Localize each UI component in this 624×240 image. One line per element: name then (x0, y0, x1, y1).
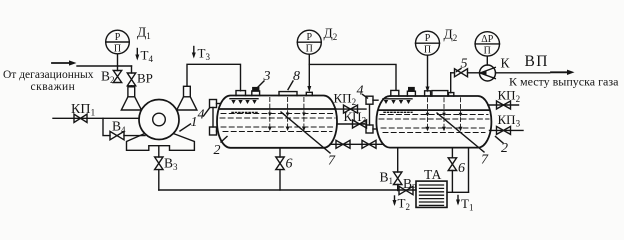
vessel2 spray header and nozzles (383, 99, 412, 113)
svg-text:2: 2 (214, 143, 221, 158)
valve КП1 (74, 114, 87, 122)
svg-text:скважин: скважин (31, 81, 76, 93)
vessel1 gauge neck (306, 92, 312, 95)
label 3 (257, 69, 271, 89)
pressure gauge Д2 (vessel1) (297, 30, 321, 55)
fan/compressor K (480, 65, 550, 81)
vessel1 internal deck (219, 108, 336, 110)
outlet flow arrow (551, 70, 575, 75)
svg-text:П: П (424, 45, 431, 56)
svg-text:П: П (306, 44, 313, 55)
vessel1 T3 inlet nozzle box (236, 91, 246, 96)
wire: gauge D1 stem (117, 54, 119, 66)
label 7 (vessel1) with leader (281, 112, 336, 169)
vessel1 drain valve 6 (276, 148, 293, 190)
pump base pedestal (127, 134, 195, 151)
label 7 (vessel2) with leader (437, 113, 489, 168)
sample point T4 (135, 48, 153, 65)
vessel2 cap fitting (407, 88, 415, 96)
vessel1 spray header and nozzles (230, 99, 258, 113)
label 8 (288, 69, 300, 90)
valve B3 (to TA) (399, 176, 417, 195)
label 5 (457, 57, 468, 72)
vessel1 gas flow dashed verticals (270, 98, 304, 131)
pump drain valve B3 (155, 146, 178, 190)
vessel2 right outlet КП2 (488, 88, 520, 110)
vessel2 right outlet КП3 (490, 112, 524, 134)
vessel1 level dashed lines (220, 114, 335, 132)
vessel2 drain valve B1 (380, 148, 402, 191)
wire: dP gauge stem (486, 56, 488, 65)
pump suction horn left (121, 87, 141, 110)
svg-text:ВР: ВР (137, 71, 153, 86)
label КП3 (between vessels) (344, 109, 367, 126)
sample point T1 (456, 196, 473, 213)
vessel 1 shell (217, 96, 337, 148)
vessel2 manhole platform (432, 91, 448, 96)
svg-text:5: 5 (461, 57, 468, 72)
level column 4 on vessel2 (366, 96, 378, 133)
label КП1 (71, 102, 95, 119)
wire: gauge Д2b stem with arrow (426, 55, 430, 92)
svg-text:ΔР: ΔР (481, 34, 493, 45)
svg-text:П: П (114, 44, 121, 55)
crossover valve КП2 (335, 105, 366, 113)
diff pressure gauge ΔР (475, 32, 499, 57)
svg-text:3: 3 (263, 69, 271, 84)
vessel2 gauge neck (425, 91, 431, 96)
valve B2 (101, 66, 122, 85)
svg-text:1: 1 (191, 115, 198, 130)
inlet flow arrow (52, 60, 77, 65)
pressure gauge Д2 (vessel2) (416, 31, 440, 56)
label 2 (vessel2) (496, 137, 509, 157)
vessel1 manhole 8 (279, 92, 297, 96)
label Д2 (vessel2) (444, 27, 458, 44)
svg-text:Р: Р (307, 32, 313, 43)
crossover valve КП3 (337, 120, 367, 128)
label ВП (525, 53, 549, 70)
text: От дегазационных скважин (3, 69, 94, 93)
svg-text:Р: Р (425, 33, 431, 44)
text: К месту выпуска газа (509, 75, 619, 89)
label 1 (180, 115, 198, 131)
bypass line with valve B4 (103, 118, 145, 140)
label 4 (vessel2 column) (357, 84, 368, 99)
svg-text:4: 4 (357, 84, 364, 99)
svg-text:К: К (501, 56, 511, 71)
pump suction horn right (177, 86, 197, 110)
wire: gauge Д2a stem with arrow (307, 54, 311, 92)
wire: inlet pipe (77, 65, 132, 67)
pressure gauge Д1 (106, 30, 130, 54)
vessel 2 shell (376, 96, 491, 148)
heat exchanger TA (416, 167, 447, 207)
vessel2 level dashed lines (379, 115, 489, 133)
bottom crossover with two valves (330, 140, 382, 148)
svg-text:ВП: ВП (525, 53, 549, 70)
sample point T2 (393, 196, 410, 213)
wire: KP1 inlet line (53, 117, 153, 119)
svg-text:7: 7 (481, 153, 489, 168)
valve 5 (451, 69, 480, 77)
label 2 (vessel1) (214, 137, 228, 159)
wire: long bottom drain pipe (159, 189, 416, 191)
svg-text:ТА: ТА (424, 167, 442, 182)
label Д1 (137, 25, 151, 42)
svg-text:6: 6 (458, 161, 465, 176)
vessel2 gas flow dashed verticals (428, 98, 461, 131)
valve ВР (127, 66, 153, 88)
svg-text:К месту выпуска газа: К месту выпуска газа (509, 75, 619, 89)
label K (501, 56, 511, 71)
level column 4 on vessel1 (210, 100, 221, 136)
vessel2 riser ledge (449, 93, 454, 96)
svg-text:П: П (484, 45, 491, 56)
svg-text:2: 2 (501, 141, 508, 156)
svg-text:6: 6 (286, 157, 293, 172)
wire: TA outlet loop (447, 191, 469, 193)
wire: pump discharge to T3 line (187, 64, 241, 91)
wire: jumper vessel1 to vessel2 (309, 64, 396, 90)
label Д2 (vessel1) (324, 26, 338, 43)
svg-text:От дегазационных: От дегазационных (3, 69, 94, 81)
vessel1 fitting 3 (cap) (252, 88, 260, 96)
vacuum pump 1 body (139, 100, 179, 140)
label 4 (vessel1 gauge column) (198, 108, 210, 123)
svg-text:7: 7 (328, 154, 336, 169)
svg-text:8: 8 (293, 69, 300, 84)
sample point T3 (192, 46, 211, 63)
svg-text:Р: Р (115, 32, 121, 43)
wire: riser vessel2 to compressor (450, 73, 452, 93)
vessel2 internal deck (379, 109, 490, 111)
vessel2 drain valve 6 (448, 148, 465, 193)
vessel2 inlet nozzle box (391, 90, 399, 96)
label КП2 (between vessels) (334, 91, 357, 108)
svg-text:4: 4 (198, 108, 205, 123)
